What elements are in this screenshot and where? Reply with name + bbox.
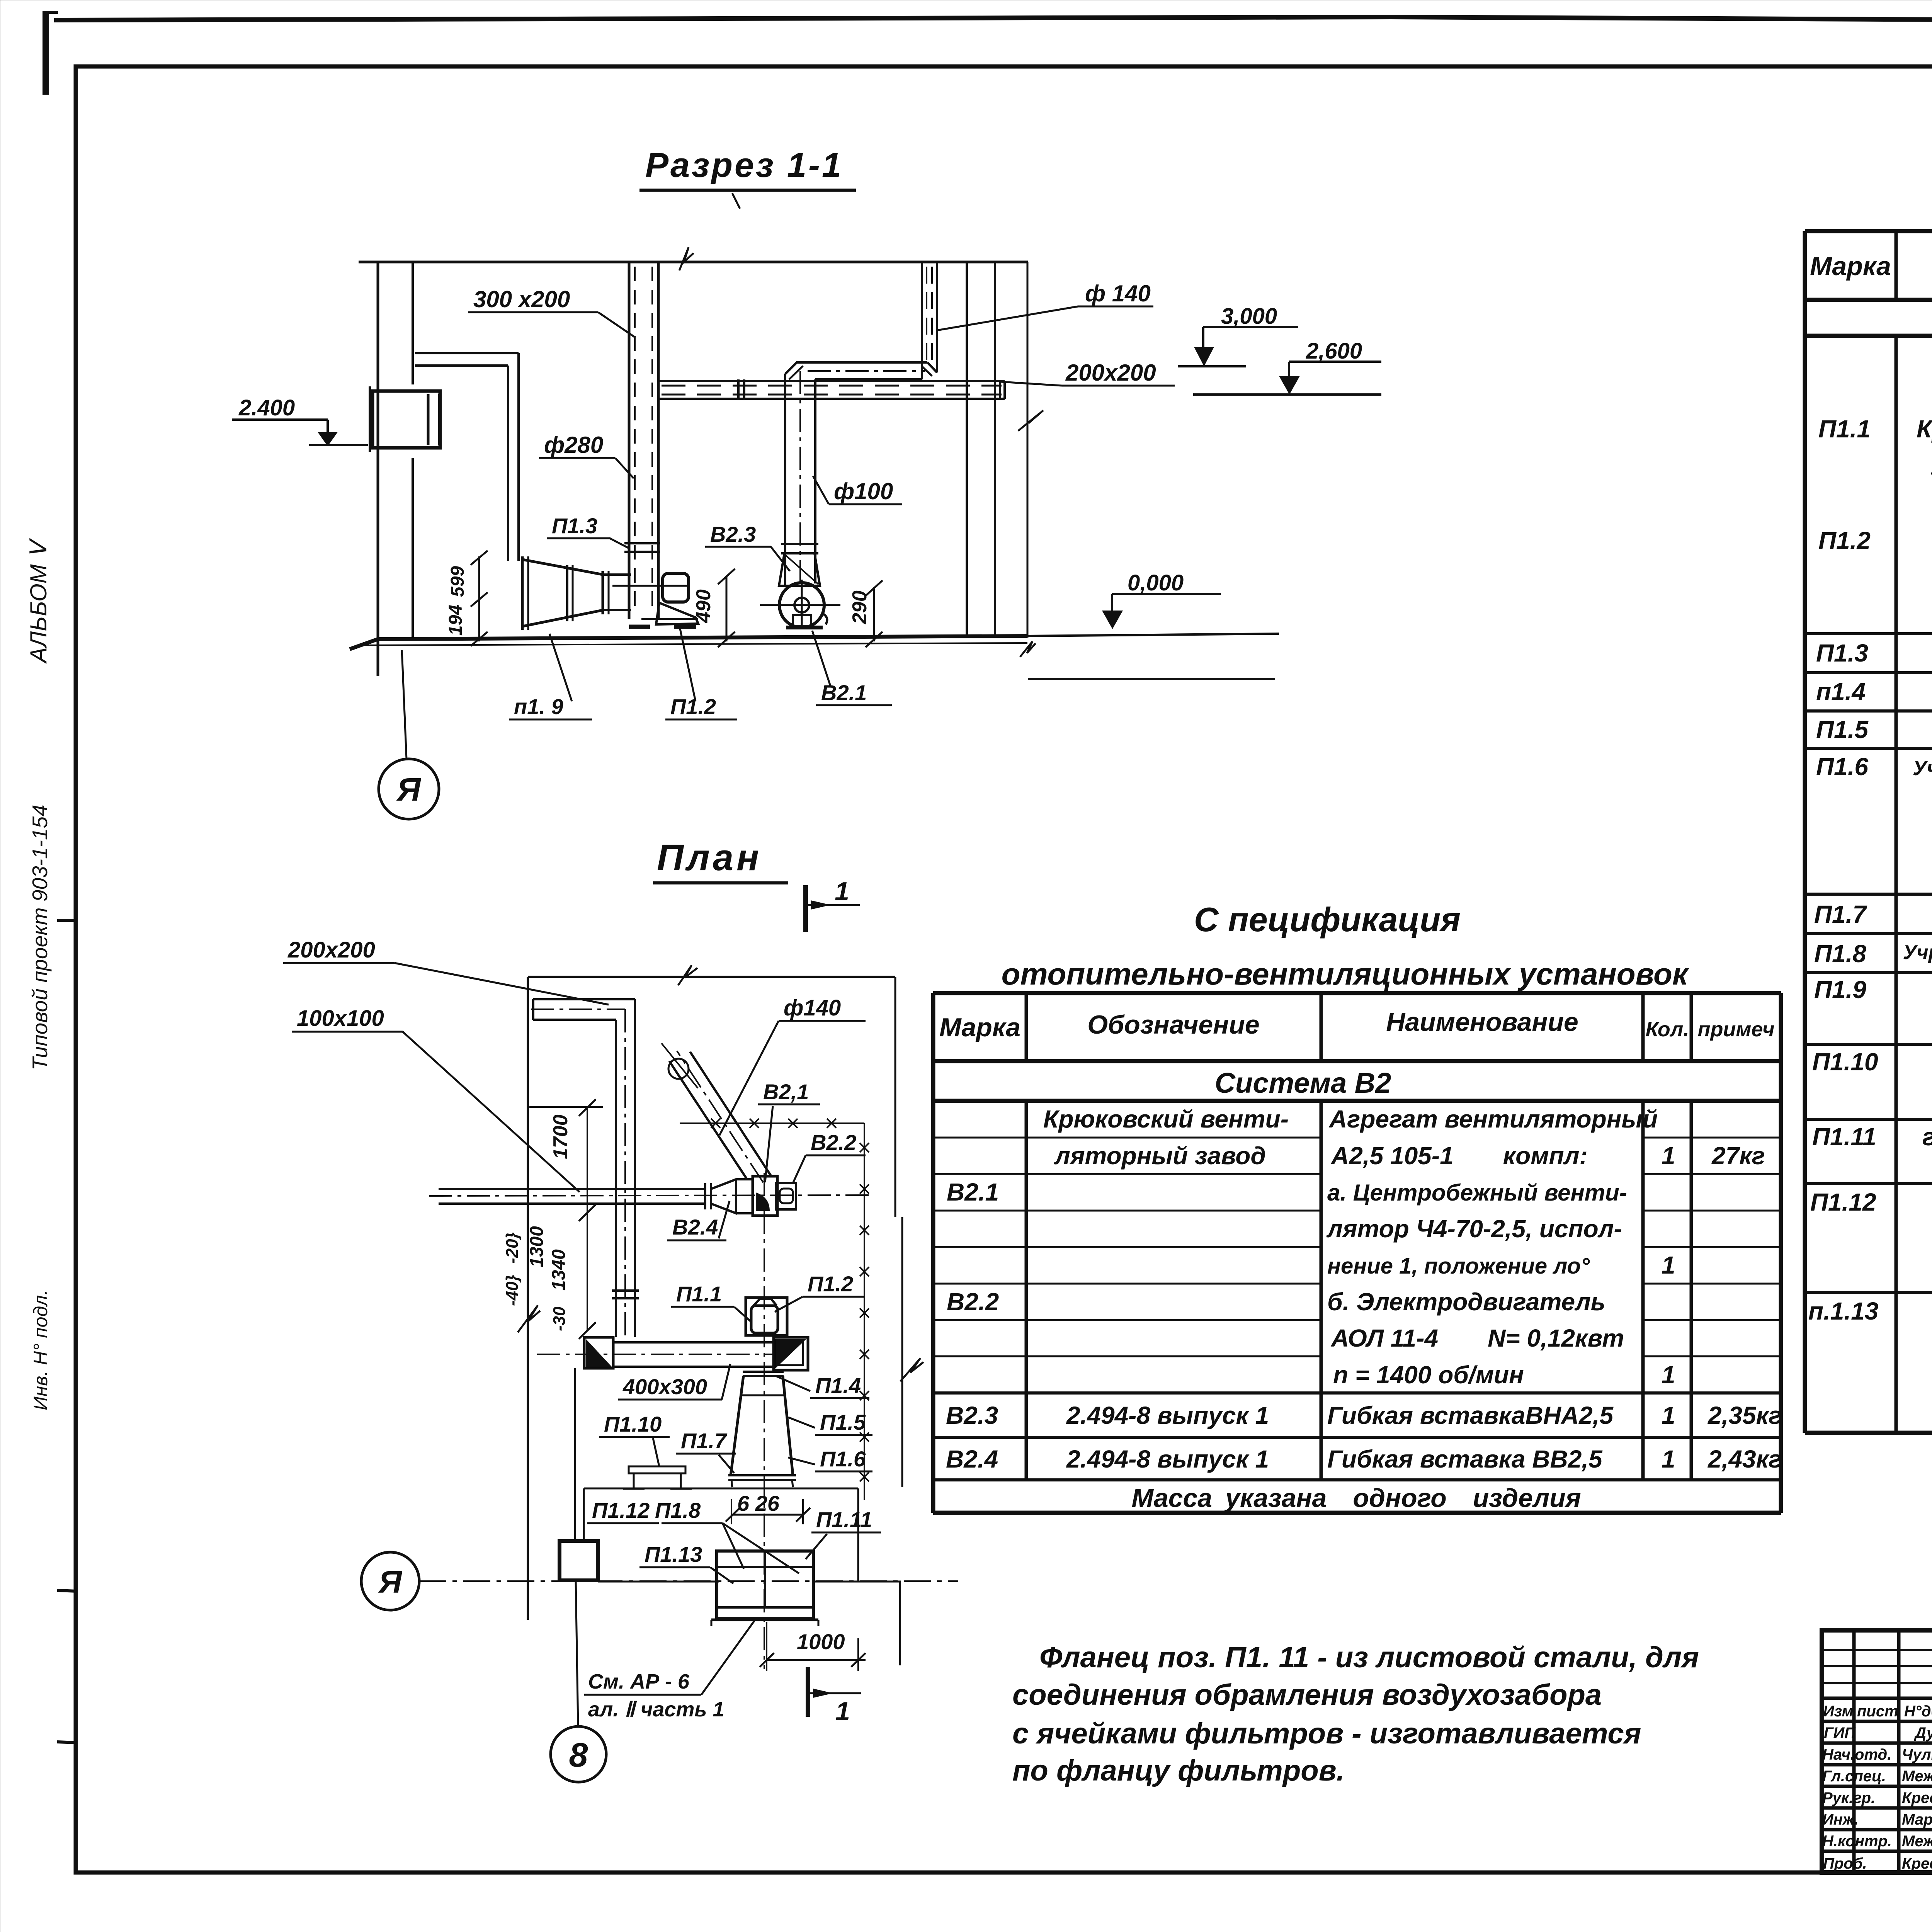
svg-text:-20}: -20} <box>503 1232 522 1264</box>
svg-text:В2.2: В2.2 <box>947 1288 999 1316</box>
elbow duct ф140 horizontal run <box>796 361 927 364</box>
В2 table body text <box>946 1105 1782 1513</box>
svg-text:Разрез 1-1: Разрез 1-1 <box>645 146 843 185</box>
svg-text:Инв. Н° подл.: Инв. Н° подл. <box>30 1290 51 1410</box>
diagonal duct ф140 in plan <box>690 1052 771 1176</box>
svg-text:нение 1, положение ло°: нение 1, положение ло° <box>1327 1253 1590 1279</box>
section cut mark top <box>803 885 808 932</box>
fan В2.1 scroll circle <box>779 583 824 628</box>
svg-text:П1.10: П1.10 <box>604 1412 662 1436</box>
svg-text:П1.11: П1.11 <box>1812 1123 1876 1151</box>
svg-text:Гл.спец.: Гл.спец. <box>1822 1768 1886 1785</box>
svg-text:Межсаргс: Межсаргс <box>1902 1768 1932 1785</box>
supply duct 300x200 vertical <box>628 262 631 619</box>
svg-text:П1.13: П1.13 <box>645 1542 702 1566</box>
left wall <box>377 262 379 676</box>
svg-text:1: 1 <box>1662 1251 1675 1279</box>
intake duct drop <box>517 353 520 561</box>
cone П1.4 П1.5 in plan <box>743 1371 784 1373</box>
exhaust duct 200x200 in plan <box>533 998 635 1000</box>
svg-text:8: 8 <box>569 1736 588 1774</box>
svg-text:2.400: 2.400 <box>238 395 295 420</box>
svg-text:1: 1 <box>835 1697 850 1726</box>
svg-text:примеч: примеч <box>1697 1018 1774 1041</box>
svg-text:2,35кг: 2,35кг <box>1708 1401 1782 1429</box>
outer sheet left corner tick <box>43 11 49 95</box>
title block staff rows <box>1822 1703 1932 1872</box>
В2 table header text <box>939 1007 1775 1099</box>
svg-text:194: 194 <box>446 605 466 636</box>
svg-text:Креерс: Креерс <box>1902 1789 1932 1806</box>
svg-text:по фланцу фильтров.: по фланцу фильтров. <box>1012 1754 1345 1787</box>
outer sheet top edge line <box>54 17 1932 23</box>
plan right boundary <box>895 977 896 1217</box>
svg-text:П1.2: П1.2 <box>1818 527 1871 554</box>
svg-text:Инж.: Инж. <box>1822 1811 1859 1828</box>
svg-text:Учреждениеял61/4: Учреждениеял61/4 <box>1913 757 1932 780</box>
svg-text:П1.11: П1.11 <box>816 1507 872 1532</box>
svg-text:В2.4: В2.4 <box>946 1445 998 1473</box>
svg-text:6 26: 6 26 <box>737 1491 780 1515</box>
svg-text:300 х200: 300 х200 <box>473 286 570 312</box>
corner box left with damper <box>584 1337 613 1368</box>
svg-text:3,000: 3,000 <box>1221 304 1277 329</box>
svg-text:П1.3: П1.3 <box>1816 639 1868 667</box>
svg-text:П1.6: П1.6 <box>820 1447 866 1471</box>
svg-text:n = 1400 об/мин: n = 1400 об/мин <box>1333 1361 1524 1389</box>
svg-text:Система В2: Система В2 <box>1215 1067 1391 1099</box>
svg-text:2,600: 2,600 <box>1306 338 1362 364</box>
svg-text:ал. Ⅱ часть 1: ал. Ⅱ часть 1 <box>588 1698 724 1721</box>
duct 100x100 in plan <box>439 1188 705 1190</box>
svg-text:Мартынова: Мартынова <box>1902 1811 1932 1828</box>
svg-text:Думан: Думан <box>1914 1725 1932 1742</box>
duct 200x200 horizontal behind wall <box>659 380 1005 382</box>
svg-text:АЛЬБОМ Ⅴ: АЛЬБОМ Ⅴ <box>26 538 51 664</box>
svg-text:490: 490 <box>692 589 715 623</box>
svg-text:Фланец поз. П1. 11 - из листов: Фланец поз. П1. 11 - из листовой стали, … <box>1039 1641 1699 1674</box>
svg-text:2.494-8 выпуск 1: 2.494-8 выпуск 1 <box>1066 1445 1269 1473</box>
svg-text:АОЛ 11-4 N= 0,12квт: АОЛ 11-4 N= 0,12квт <box>1330 1324 1624 1352</box>
svg-text:соединения обрамления воздух: соединения обрамления воздухозабора <box>1012 1679 1602 1711</box>
ceiling line <box>359 261 1028 264</box>
svg-text:п1.4: п1.4 <box>1816 678 1866 706</box>
svg-text:Наименование: Наименование <box>1386 1007 1578 1037</box>
svg-text:200х200: 200х200 <box>1065 360 1156 386</box>
wall sleeve box lower left <box>560 1541 598 1580</box>
svg-text:ф280: ф280 <box>544 432 603 458</box>
svg-text:1: 1 <box>835 877 849 906</box>
svg-text:27кг: 27кг <box>1711 1142 1765 1170</box>
svg-text:П1.1: П1.1 <box>1818 415 1871 443</box>
svg-text:Гибкая вставкаВНА2,5: Гибкая вставкаВНА2,5 <box>1327 1401 1614 1429</box>
svg-text:Н°докум.: Н°докум. <box>1904 1703 1932 1720</box>
svg-text:Масса указана одного изделия: Масса указана одного изделия <box>1131 1483 1581 1513</box>
flexible insert П1.3 <box>624 542 660 544</box>
plan left wall <box>527 977 529 1620</box>
duct 400x300 in plan <box>613 1341 774 1344</box>
flexible insert В2.4 cone <box>704 1183 706 1209</box>
fan П1.2 support bracket <box>656 603 698 624</box>
intake chamber boundary <box>584 1488 858 1490</box>
svg-text:Кол.: Кол. <box>1646 1018 1689 1041</box>
svg-text:П1.9: П1.9 <box>1814 976 1866 1003</box>
svg-text:1340: 1340 <box>549 1249 569 1291</box>
svg-text:-40}: -40} <box>503 1275 522 1306</box>
diffuser cone П1.9 <box>522 560 603 626</box>
svg-text:П1.8: П1.8 <box>655 1498 701 1522</box>
svg-text:П1.1: П1.1 <box>676 1282 722 1306</box>
svg-text:П1.8: П1.8 <box>1814 940 1866 968</box>
svg-text:Крюковский венти-: Крюковский венти- <box>1043 1105 1289 1133</box>
svg-text:См. АР - 6: См. АР - 6 <box>588 1670 690 1693</box>
svg-text:ляторный завод: ляторный завод <box>1054 1142 1266 1170</box>
svg-text:П1.2: П1.2 <box>808 1272 853 1296</box>
svg-text:с ячейками фильтров - изготавл: с ячейками фильтров - изготавливается <box>1012 1717 1641 1750</box>
svg-text:лятор Ч4-70-2,5, испол-: лятор Ч4-70-2,5, испол- <box>1326 1215 1622 1243</box>
svg-text:Рук.гр.: Рук.гр. <box>1822 1789 1875 1806</box>
svg-text:б. Электродвигатель: б. Электродвигатель <box>1327 1288 1605 1316</box>
svg-text:ГИП: ГИП <box>1824 1725 1856 1742</box>
intake duct horizontal <box>415 352 519 354</box>
svg-text:Н.контр.: Н.контр. <box>1822 1833 1892 1850</box>
corner box right with damper <box>774 1337 808 1370</box>
П1 table header text <box>1810 247 1932 335</box>
ceiling break mark <box>679 247 694 270</box>
drawing right boundary <box>1027 262 1029 638</box>
svg-text:С пецификация: С пецификация <box>1194 900 1461 939</box>
floor line <box>350 636 1027 649</box>
fan unit П1.2 motor <box>663 573 689 602</box>
air valve П1.13 box <box>717 1551 813 1618</box>
svg-text:290: 290 <box>849 590 871 624</box>
svg-text:а. Центробежный венти-: а. Центробежный венти- <box>1327 1180 1627 1206</box>
svg-text:В2.1: В2.1 <box>947 1178 999 1206</box>
П1 table body text <box>1808 340 1932 1432</box>
specification table Система В2 grid <box>933 993 1781 1513</box>
fan В2.1 in plan <box>753 1176 777 1216</box>
plan top wall <box>528 976 895 978</box>
svg-text:Изм: Изм <box>1823 1703 1853 1720</box>
svg-text:2,43кг: 2,43кг <box>1708 1445 1782 1473</box>
svg-text:П1.2: П1.2 <box>670 694 716 719</box>
svg-text:Обозначение: Обозначение <box>1087 1010 1259 1039</box>
axis А dash-dot line <box>419 1580 958 1582</box>
motor П1.2 in plan <box>751 1306 778 1333</box>
svg-text:Чульский: Чульский <box>1902 1746 1932 1763</box>
svg-text:ф100: ф100 <box>834 478 893 504</box>
svg-text:гост 19903 - 74: гост 19903 - 74 <box>1922 1123 1932 1151</box>
svg-text:П1.5: П1.5 <box>1816 716 1869 743</box>
svg-text:Я: Я <box>396 771 421 808</box>
svg-text:1: 1 <box>1662 1445 1675 1473</box>
svg-text:П1.6: П1.6 <box>1816 753 1868 781</box>
svg-text:В2.1: В2.1 <box>821 680 867 705</box>
svg-text:В2.3: В2.3 <box>946 1401 998 1429</box>
svg-text:Учреждение УС - 319/56: Учреждение УС - 319/56 <box>1903 941 1932 964</box>
svg-text:пист: пист <box>1857 1703 1898 1720</box>
axis 8 circle <box>551 1726 606 1782</box>
frame fold tick marks <box>57 919 77 922</box>
wall intake louver box 2.400 <box>372 391 440 448</box>
svg-text:отопительно-вентиляционных уст: отопительно-вентиляционных установок <box>1002 957 1689 991</box>
svg-text:Я: Я <box>378 1565 403 1600</box>
fan unit П1.1 in plan <box>746 1298 787 1335</box>
svg-text:П1.4: П1.4 <box>815 1373 861 1398</box>
svg-text:П1.7: П1.7 <box>681 1429 728 1453</box>
svg-text:599: 599 <box>447 566 468 597</box>
svg-text:В2.4: В2.4 <box>672 1215 718 1239</box>
axis А circle top <box>379 759 439 819</box>
title block (штамп) grid <box>1822 1630 1932 1872</box>
svg-text:Гибкая вставка ВВ2,5: Гибкая вставка ВВ2,5 <box>1327 1445 1603 1473</box>
svg-text:П1.12: П1.12 <box>592 1498 650 1522</box>
svg-text:А2,5 105-1 компл:: А2,5 105-1 компл: <box>1330 1142 1588 1170</box>
svg-text:П1.5: П1.5 <box>820 1410 866 1434</box>
svg-text:Марка: Марка <box>1810 252 1891 281</box>
svg-text:Агрегат вентиляторный: Агрегат вентиляторный <box>1328 1105 1658 1133</box>
svg-text:100х100: 100х100 <box>297 1006 384 1031</box>
svg-text:В2.2: В2.2 <box>811 1130 856 1155</box>
svg-text:В2,1: В2,1 <box>763 1080 809 1104</box>
bottom note about flange П1.11 <box>1012 1641 1699 1787</box>
svg-text:0,000: 0,000 <box>1128 570 1184 595</box>
svg-text:В2.3: В2.3 <box>710 522 756 546</box>
svg-text:Креерс: Креерс <box>1902 1855 1932 1872</box>
svg-text:1300: 1300 <box>527 1226 547 1267</box>
motor В2.2 in plan <box>776 1183 796 1209</box>
svg-text:ф 140: ф 140 <box>1085 281 1151 306</box>
svg-text:П1.10: П1.10 <box>1812 1048 1878 1076</box>
specification table Система П1 grid <box>1805 231 1932 1433</box>
axis А circle bottom <box>361 1552 419 1610</box>
svg-text:п1. 9: п1. 9 <box>514 694 563 719</box>
svg-text:400х300: 400х300 <box>622 1374 707 1399</box>
installation fence with x marks <box>680 1119 869 1500</box>
svg-text:Проб.: Проб. <box>1823 1855 1867 1872</box>
svg-text:План: План <box>657 837 762 878</box>
svg-text:Нач.отд.: Нач.отд. <box>1822 1746 1891 1763</box>
exhaust duct ф100 vertical <box>784 374 786 586</box>
svg-text:1000: 1000 <box>797 1629 845 1654</box>
svg-text:Типовой проект 903-1-154: Типовой проект 903-1-154 <box>28 804 52 1070</box>
svg-text:1: 1 <box>1662 1142 1675 1170</box>
svg-text:П1.7: П1.7 <box>1814 900 1867 928</box>
center axis of unit vertical <box>764 1173 765 1669</box>
svg-text:200х200: 200х200 <box>287 937 375 963</box>
svg-text:2.494-8 выпуск 1: 2.494-8 выпуск 1 <box>1066 1401 1269 1429</box>
svg-text:П1.3: П1.3 <box>552 514 597 538</box>
svg-text:Марка: Марка <box>939 1013 1020 1042</box>
svg-text:п.1.13: п.1.13 <box>1808 1297 1878 1325</box>
svg-text:Межсарес: Межсарес <box>1902 1833 1932 1850</box>
flexible insert В2.3 <box>781 543 818 545</box>
svg-text:П1.12: П1.12 <box>1810 1188 1876 1216</box>
right wall <box>966 262 968 636</box>
svg-text:ф140: ф140 <box>784 995 841 1020</box>
svg-text:-30: -30 <box>550 1306 569 1331</box>
duct ф140 riser <box>921 262 923 379</box>
svg-text:1: 1 <box>1662 1401 1675 1429</box>
svg-text:1: 1 <box>1662 1361 1675 1389</box>
svg-text:Крюковский венти-: Крюковский венти- <box>1917 415 1932 443</box>
section cut mark bottom <box>806 1667 810 1717</box>
heater stand П1.10 <box>629 1466 685 1473</box>
svg-text:1700: 1700 <box>549 1114 572 1159</box>
